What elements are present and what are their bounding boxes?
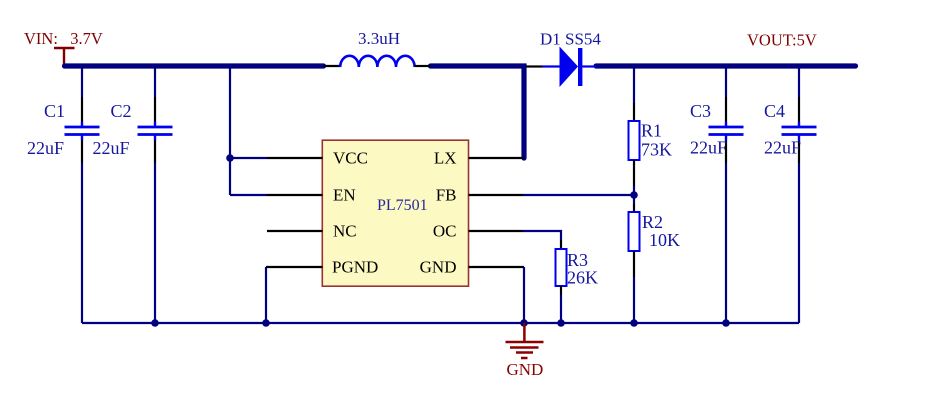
- svg-text:PL7501: PL7501: [377, 197, 428, 214]
- svg-text:OC: OC: [433, 222, 457, 241]
- wire EN net segment: [230, 194, 267, 196]
- svg-text:C2: C2: [111, 101, 132, 121]
- svg-text:22uF: 22uF: [690, 138, 727, 158]
- resistor R2: [629, 195, 640, 323]
- junction R3 bottom node: [557, 319, 565, 327]
- pin VCC: [267, 149, 368, 168]
- pin PGND: [266, 258, 378, 277]
- svg-text:C4: C4: [764, 101, 785, 121]
- svg-text:FB: FB: [436, 186, 457, 205]
- svg-text:NC: NC: [333, 222, 357, 241]
- svg-text:22uF: 22uF: [93, 138, 130, 158]
- wire ground rail: [82, 322, 799, 324]
- svg-text:GND: GND: [420, 258, 457, 277]
- junction C3 bottom node: [722, 319, 730, 327]
- ground symbol GND: [506, 323, 544, 358]
- svg-text:10K: 10K: [649, 230, 680, 250]
- svg-text:22uF: 22uF: [764, 138, 801, 158]
- power symbol VIN bar: [54, 48, 75, 66]
- capacitor C3: [709, 68, 744, 163]
- svg-text:VIN: 3.7V: VIN: 3.7V: [24, 29, 103, 48]
- svg-text:VCC: VCC: [333, 149, 368, 168]
- pin EN: [267, 186, 356, 205]
- wire C3 bottom to ground rail: [725, 163, 727, 323]
- wire PGND to ground rail: [265, 267, 267, 323]
- svg-text:R2: R2: [642, 212, 663, 232]
- pin OC: [433, 222, 523, 241]
- junction GND node: [520, 319, 528, 327]
- capacitor C2: [138, 68, 173, 163]
- svg-text:VOUT:5V: VOUT:5V: [747, 30, 817, 49]
- junction FB node: [630, 191, 638, 199]
- pin GND: [420, 258, 524, 277]
- pin LX: [434, 149, 524, 168]
- wire VCC net segment: [230, 157, 267, 159]
- junction VCC node: [226, 154, 234, 162]
- wire OC to R3: [523, 231, 561, 240]
- resistor R3: [556, 240, 567, 323]
- wire rail drop to VCC/EN: [229, 68, 231, 195]
- junction PGND node: [262, 319, 270, 327]
- junction C2 bottom node: [151, 319, 159, 327]
- inductor 3.3uH: [324, 56, 431, 67]
- wire top rail VOUT segment: [596, 63, 856, 68]
- svg-text:PGND: PGND: [332, 258, 378, 277]
- wire top rail VIN segment: [65, 63, 324, 68]
- wire C1 bottom to ground rail: [81, 163, 83, 323]
- capacitor C4: [782, 68, 817, 163]
- diode D1 SS54: [526, 47, 596, 88]
- wire C2 bottom to ground rail: [154, 163, 156, 323]
- wire C4 bottom to ground rail: [798, 163, 800, 323]
- junction R2 bottom node: [630, 319, 638, 327]
- pin FB: [436, 186, 523, 205]
- wire top rail mid segment to LX drop: [431, 66, 525, 158]
- svg-text:EN: EN: [333, 186, 356, 205]
- wire GND pin to ground rail: [523, 267, 525, 323]
- svg-text:3.3uH: 3.3uH: [358, 29, 400, 48]
- svg-text:C3: C3: [690, 101, 711, 121]
- svg-text:LX: LX: [434, 149, 457, 168]
- resistor R1: [629, 68, 640, 195]
- pin NC: [267, 222, 357, 241]
- svg-text:26K: 26K: [567, 268, 598, 288]
- svg-text:R1: R1: [641, 121, 662, 141]
- wire FB to divider: [523, 194, 634, 196]
- svg-text:D1 SS54: D1 SS54: [540, 30, 601, 49]
- svg-text:C1: C1: [44, 101, 65, 121]
- svg-text:73K: 73K: [641, 140, 672, 160]
- op-amp U1 PL7501 body: [322, 140, 468, 286]
- svg-text:GND: GND: [507, 360, 544, 379]
- capacitor C1: [65, 68, 100, 163]
- svg-text:22uF: 22uF: [27, 138, 64, 158]
